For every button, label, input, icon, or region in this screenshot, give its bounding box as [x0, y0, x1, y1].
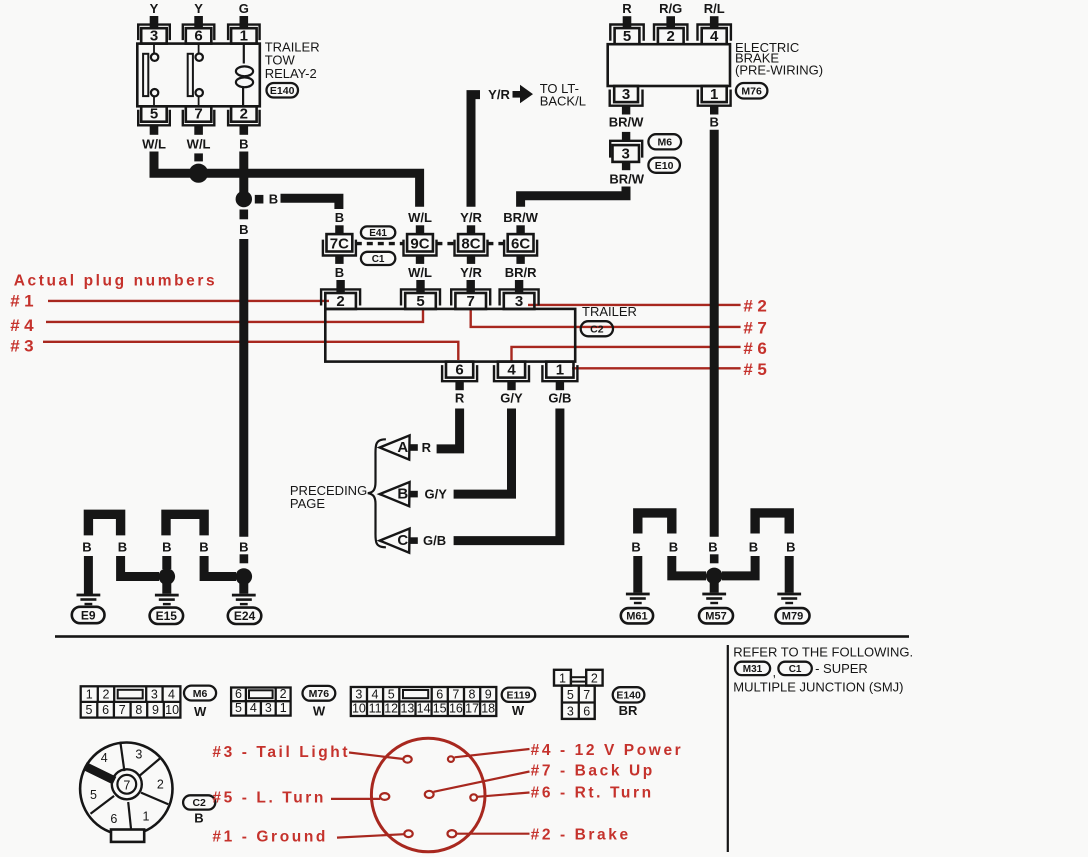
label ELECTRIC BRAKE (PRE-WIRING) — [735, 40, 823, 78]
connector ref M6 (view) — [184, 686, 216, 701]
svg-text:#4: #4 — [10, 316, 38, 335]
svg-text:M61: M61 — [626, 611, 647, 623]
svg-text:17: 17 — [465, 702, 479, 716]
connector ref M57 — [699, 608, 733, 623]
connector ref E9 — [72, 607, 105, 623]
arrow to LT-BACK/L — [513, 85, 534, 103]
relay pin 5 — [138, 106, 170, 126]
label W (E119) — [512, 703, 525, 718]
label TRAILER TOW RELAY-2 — [265, 40, 320, 82]
wire Y/R to SMJ 8C — [471, 95, 480, 207]
red line to pin #6 — [477, 793, 529, 797]
red plug circle — [371, 738, 485, 852]
svg-text:#6 - Rt. Turn: #6 - Rt. Turn — [531, 785, 654, 802]
red plug pin #7 back up — [425, 791, 434, 798]
label #7 - Back Up — [531, 763, 655, 780]
inline connector 3 (M6/E10) — [610, 141, 642, 170]
wire G/Y to arrow B — [454, 409, 512, 495]
svg-text:E119: E119 — [507, 690, 531, 702]
svg-text:3: 3 — [135, 748, 142, 762]
junction dot M57 — [706, 568, 723, 585]
svg-text:R/G: R/G — [659, 1, 682, 16]
svg-text:Y: Y — [194, 1, 203, 16]
svg-text:R: R — [422, 440, 432, 455]
svg-text:4: 4 — [710, 28, 719, 45]
trailer pin 6 — [442, 361, 477, 381]
svg-text:#6: #6 — [743, 339, 771, 358]
connector view E140 — [554, 670, 603, 719]
label Actual plug numbers — [14, 273, 218, 290]
svg-text:Y/R: Y/R — [488, 87, 510, 102]
svg-text:E15: E15 — [156, 609, 178, 623]
svg-text:3: 3 — [567, 705, 574, 719]
svg-text:8: 8 — [135, 703, 142, 717]
label TO LT-BACK/L — [540, 81, 586, 108]
svg-text:7: 7 — [119, 703, 126, 717]
svg-text:2: 2 — [280, 687, 287, 701]
red line to pin #1 — [337, 834, 404, 837]
preceding-page arrow A — [380, 435, 432, 459]
label W (M76) — [313, 704, 326, 719]
label #2 — [743, 297, 771, 316]
svg-text:#2 - Brake: #2 - Brake — [531, 827, 631, 844]
wire G to relay pin 1 — [239, 1, 249, 29]
connector ref M79 — [776, 608, 810, 623]
svg-text:B: B — [239, 137, 248, 152]
svg-text:#5 - L. Turn: #5 - L. Turn — [212, 790, 326, 807]
wire stub above junction M57 — [710, 554, 719, 563]
connector ref M31 — [735, 662, 770, 675]
svg-text:B: B — [749, 540, 758, 555]
label #1 — [10, 292, 38, 311]
label B (E15 leg) — [162, 540, 171, 555]
svg-text:18: 18 — [481, 702, 495, 716]
trailer pin 2 — [321, 289, 360, 309]
label B (E24 leg) — [239, 540, 248, 555]
label B (pie C2) — [194, 811, 203, 826]
red line to pin #4 — [455, 749, 530, 757]
wire stub to trailer pin 3 — [515, 280, 523, 293]
svg-text:6: 6 — [194, 27, 202, 44]
label B (M79 leg) — [786, 540, 795, 555]
svg-text:E9: E9 — [81, 608, 96, 622]
svg-text:6: 6 — [583, 705, 590, 719]
connector ref C1 (note) — [778, 662, 811, 675]
svg-text:3: 3 — [622, 86, 630, 103]
svg-text:RELAY-2: RELAY-2 — [265, 66, 317, 81]
svg-text:B: B — [194, 811, 203, 826]
svg-text:3: 3 — [515, 293, 523, 310]
wire stub + label W/L pin 5 — [142, 125, 166, 151]
svg-text:15: 15 — [433, 702, 447, 716]
junction dot B — [236, 191, 252, 207]
relay pin 3 — [138, 25, 170, 45]
connector view M6 — [81, 686, 181, 717]
note REFER TO THE FOLLOWING — [733, 645, 913, 660]
svg-text:3: 3 — [355, 687, 362, 701]
trailer pin 1 — [542, 361, 577, 381]
wire below junction M57 — [710, 582, 719, 593]
red plug pin #2 brake — [448, 830, 457, 837]
svg-text:6C: 6C — [511, 236, 530, 253]
svg-text:BR/W: BR/W — [609, 115, 644, 130]
wire stub below trailer pin 6 — [455, 381, 463, 390]
svg-text:5: 5 — [235, 701, 242, 715]
red plug pin #6 Rt turn — [470, 794, 477, 800]
wire B link M61 (upper U) — [638, 513, 672, 534]
svg-text:3: 3 — [150, 27, 158, 44]
svg-text:BACK/L: BACK/L — [540, 93, 586, 108]
brake pin 1 — [698, 86, 731, 106]
svg-text:1: 1 — [143, 810, 150, 824]
svg-text:(PRE-WIRING): (PRE-WIRING) — [735, 63, 823, 78]
svg-text:W/L: W/L — [408, 265, 432, 280]
wire B to ground M79 — [785, 556, 794, 593]
connector ref M76 — [736, 83, 768, 99]
svg-text:M57: M57 — [705, 611, 726, 623]
svg-text:14: 14 — [417, 702, 431, 716]
label Y/R (arrow) — [488, 87, 510, 102]
svg-text:B: B — [199, 540, 208, 555]
svg-text:#3: #3 — [10, 337, 38, 356]
connector view E119 — [351, 687, 497, 716]
wire R/L to brake pin 4 — [704, 1, 725, 28]
svg-text:Y/R: Y/R — [460, 210, 482, 225]
svg-text:B: B — [786, 540, 795, 555]
wire stub below trailer pin 1 — [556, 381, 564, 390]
relay coil — [236, 44, 253, 107]
svg-text:1: 1 — [556, 361, 564, 378]
svg-text:2: 2 — [157, 777, 164, 791]
wire R/G to brake pin 2 — [659, 1, 682, 28]
wire B down to junction E15 — [121, 556, 159, 577]
svg-text:B: B — [335, 210, 344, 225]
wire G/B to arrow C — [454, 409, 560, 541]
svg-text:W/L: W/L — [187, 137, 211, 152]
SMJ connector 9C — [404, 210, 437, 280]
wire R to brake pin 5 — [622, 1, 632, 28]
svg-text:3: 3 — [265, 701, 272, 715]
svg-text:4: 4 — [372, 687, 379, 701]
svg-text:7: 7 — [467, 293, 475, 310]
red line #1 to trailer pin 2 — [48, 300, 329, 302]
label B (E9 leg) — [82, 540, 91, 555]
svg-text:Y/R: Y/R — [460, 265, 482, 280]
connector ref E15 — [150, 608, 184, 624]
trailer unit body — [325, 309, 575, 362]
wire stub to trailer pin 5 — [416, 280, 424, 293]
svg-text:E24: E24 — [234, 609, 256, 623]
label #5 — [743, 360, 771, 379]
svg-text:3: 3 — [622, 146, 630, 163]
svg-text:2: 2 — [591, 671, 598, 685]
svg-text:9: 9 — [152, 703, 159, 717]
svg-text:B: B — [239, 222, 248, 237]
connector ref C2 (pie) — [183, 795, 215, 809]
svg-text:4: 4 — [101, 751, 108, 765]
connector ref E119 (view) — [502, 688, 536, 702]
SMJ connector 6C — [503, 210, 538, 280]
red line #5 from trailer pin 1 — [572, 367, 741, 369]
svg-text:A: A — [397, 439, 408, 456]
svg-text:PAGE: PAGE — [290, 496, 325, 511]
label TRAILER — [582, 304, 637, 319]
ground symbol E15 — [155, 594, 179, 606]
label #4 - 12 V Power — [531, 742, 684, 759]
svg-text:6: 6 — [102, 703, 109, 717]
svg-text:#2: #2 — [743, 297, 771, 316]
label B right of junction — [269, 192, 278, 207]
svg-text:G/Y: G/Y — [500, 391, 523, 406]
wire B to SMJ 7C — [281, 198, 339, 209]
relay pin 1 — [228, 25, 260, 45]
brake pin 3 — [610, 86, 643, 106]
wire B down to junction M57 (right) — [722, 556, 755, 576]
svg-text:#7: #7 — [743, 319, 771, 338]
svg-text:5: 5 — [623, 28, 631, 45]
brake pin 2 — [654, 25, 687, 46]
label BR (E140) — [619, 703, 638, 718]
svg-text:G/B: G/B — [548, 391, 571, 406]
svg-text:BR/W: BR/W — [609, 171, 644, 186]
relay pin 7 — [183, 106, 215, 126]
svg-text:2: 2 — [667, 28, 675, 45]
connector ref E140 (view) — [613, 687, 645, 702]
ground symbol E24 — [232, 594, 256, 606]
label PRECEDING PAGE — [290, 483, 367, 511]
svg-text:#1 - Ground: #1 - Ground — [212, 829, 328, 846]
red plug pin #4 12V power — [448, 756, 454, 762]
junction dot E24 — [236, 568, 253, 585]
wire stub W/L pin 7 to junction — [194, 153, 203, 161]
svg-text:W/L: W/L — [142, 137, 166, 152]
svg-text:C2: C2 — [590, 324, 604, 336]
red line #3 to trailer pin 6 — [43, 342, 458, 360]
wire B link E15-E24 (upper U) — [166, 514, 204, 535]
wire stub below junction B — [240, 210, 249, 220]
SMJ dashed links — [356, 242, 504, 245]
label #6 — [743, 339, 771, 358]
label #6 - Rt. Turn — [531, 785, 654, 802]
trailer pin 3 — [500, 289, 539, 309]
label #7 — [743, 319, 771, 338]
connector ref M61 — [621, 608, 653, 623]
label #3 - Tail Light — [212, 744, 350, 761]
svg-text:#4 - 12 V Power: #4 - 12 V Power — [531, 742, 684, 759]
ground symbol M61 — [626, 593, 650, 605]
note divider line — [727, 645, 729, 852]
svg-text:R/L: R/L — [704, 1, 725, 16]
svg-text:4: 4 — [250, 701, 257, 715]
label #4 — [10, 316, 38, 335]
connector ref C1 — [361, 252, 395, 265]
svg-text:C1: C1 — [789, 664, 802, 675]
svg-text:M31: M31 — [743, 664, 763, 675]
brake pin 5 — [610, 25, 643, 46]
wire stub + label BR/W brake pin 3 — [609, 106, 644, 130]
label #5 - L. Turn — [212, 790, 326, 807]
svg-text:#7 - Back Up: #7 - Back Up — [531, 763, 655, 780]
svg-text:4: 4 — [507, 361, 516, 378]
wire stub above junction E24 — [240, 554, 249, 563]
red line #4 to trailer pin 5 — [46, 308, 423, 322]
red line to pin #2 — [456, 833, 529, 835]
svg-text:7: 7 — [123, 778, 130, 792]
svg-text:M6: M6 — [193, 688, 208, 700]
wire B down to junction M57 (left) — [672, 556, 706, 576]
svg-text:E140: E140 — [616, 690, 641, 702]
wire stub below trailer pin 4 — [507, 381, 515, 390]
wire stub + label B brake pin 1 — [710, 106, 719, 130]
relay U1 TRAILER TOW RELAY-2 body — [137, 44, 259, 107]
red line #6 to trailer pin 4 — [512, 347, 741, 361]
label R below trailer pin 6 — [455, 391, 465, 406]
svg-text:6: 6 — [235, 687, 242, 701]
connector ref E10 — [648, 158, 680, 173]
svg-text:B: B — [397, 486, 408, 503]
svg-text:7: 7 — [194, 106, 202, 123]
red plug pin #3 tail light — [403, 756, 411, 763]
svg-text:B: B — [335, 265, 344, 280]
junction dot W/L — [189, 164, 208, 183]
svg-text:8C: 8C — [461, 236, 480, 253]
svg-text:MULTIPLE JUNCTION (SMJ): MULTIPLE JUNCTION (SMJ) — [733, 680, 903, 695]
svg-text:C2: C2 — [192, 797, 206, 809]
red plug pin #1 ground — [404, 830, 412, 837]
label B below junction — [239, 222, 248, 237]
connector ref E24 — [228, 608, 261, 624]
label #3 — [10, 337, 38, 356]
svg-text:16: 16 — [449, 702, 463, 716]
svg-text:#3 - Tail Light: #3 - Tail Light — [212, 744, 350, 761]
svg-text:B: B — [710, 115, 719, 130]
svg-text:W: W — [194, 704, 207, 719]
svg-text:M76: M76 — [309, 688, 330, 700]
svg-text:B: B — [82, 540, 91, 555]
label BR/W below connector 3 — [609, 171, 644, 186]
red line to pin #3 — [349, 753, 403, 760]
svg-text:B: B — [631, 540, 640, 555]
svg-text:REFER TO THE FOLLOWING.: REFER TO THE FOLLOWING. — [733, 645, 913, 660]
wire stub + label W/L pin 7 — [187, 125, 211, 151]
svg-text:B: B — [708, 540, 717, 555]
wire stub into connector 3 — [622, 132, 630, 142]
svg-text:1: 1 — [280, 701, 287, 715]
svg-text:10: 10 — [165, 703, 179, 717]
svg-text:10: 10 — [352, 702, 366, 716]
svg-text:B: B — [669, 540, 678, 555]
separator line — [55, 635, 909, 638]
svg-text:BR: BR — [619, 703, 638, 718]
svg-text:TRAILER: TRAILER — [582, 304, 637, 319]
svg-text:12: 12 — [384, 702, 398, 716]
connector ref E140 (relay) — [267, 83, 299, 98]
svg-text:5: 5 — [150, 106, 158, 123]
svg-text:5: 5 — [416, 293, 424, 310]
svg-text:1: 1 — [710, 86, 718, 103]
svg-text:9C: 9C — [410, 236, 429, 253]
svg-text:2: 2 — [103, 688, 110, 702]
label B (M57 leg) — [708, 540, 717, 555]
svg-text:7: 7 — [452, 687, 459, 701]
relay pin 2 — [228, 106, 260, 126]
red plug pin #5 L turn — [380, 793, 389, 800]
svg-text:M6: M6 — [658, 137, 673, 149]
connector ref E41 — [361, 226, 395, 239]
trailer pin 5 — [401, 289, 440, 309]
connector ref M6 — [648, 134, 681, 149]
svg-text:W/L: W/L — [408, 210, 432, 225]
svg-text:1: 1 — [240, 27, 248, 44]
label B (M61 leg) — [631, 540, 640, 555]
wire stub right of junction B — [255, 195, 264, 204]
SMJ connector 8C — [455, 210, 488, 280]
svg-text:6: 6 — [436, 687, 443, 701]
red line #2 from trailer pin 3 — [528, 304, 741, 306]
wire stub + label B pin 2 — [239, 125, 248, 151]
trailer pin 7 — [451, 289, 490, 309]
svg-text:,: , — [773, 665, 777, 680]
wire B down to junction E24 — [204, 556, 236, 577]
svg-text:M76: M76 — [741, 86, 762, 98]
red line #7 from trailer pin 7 — [471, 310, 741, 327]
label #2 - Brake — [531, 827, 631, 844]
ground symbol M79 — [777, 593, 801, 605]
svg-text:2: 2 — [240, 106, 248, 123]
svg-text:W: W — [313, 704, 326, 719]
svg-text:B: B — [239, 540, 248, 555]
svg-text:E140: E140 — [270, 85, 295, 97]
svg-text:11: 11 — [369, 702, 382, 716]
svg-text:G/B: G/B — [423, 533, 446, 548]
wire B to ground E9 — [84, 556, 93, 594]
electric brake unit body — [608, 44, 730, 86]
svg-text:9: 9 — [485, 687, 492, 701]
svg-text:R: R — [622, 1, 632, 16]
label B (E15-E24 leg) — [199, 540, 208, 555]
svg-text:G/Y: G/Y — [424, 487, 447, 502]
wire B from relay pin 2 — [239, 152, 248, 200]
svg-text:1: 1 — [86, 688, 93, 702]
svg-text:R: R — [455, 391, 465, 406]
trailer pin 4 — [494, 361, 529, 381]
red line to pin #5 — [331, 798, 380, 800]
wire B to ground M61 — [633, 556, 642, 593]
svg-text:Y: Y — [150, 1, 159, 16]
wire B down to ground E24 — [239, 239, 248, 537]
junction dot E15 — [159, 568, 176, 585]
svg-text:2: 2 — [336, 293, 344, 310]
wire R to arrow A — [437, 409, 460, 449]
pie connector face C2 — [80, 742, 172, 842]
relay pin 6 — [183, 25, 215, 45]
label B (M57-M79 leg) — [749, 540, 758, 555]
brake pin 4 — [698, 25, 731, 46]
preceding-page arrow C — [380, 529, 446, 553]
svg-text:7C: 7C — [330, 236, 349, 253]
wire B link E9-E15 (upper U) — [88, 514, 120, 535]
svg-text:C1: C1 — [372, 254, 385, 265]
svg-text:5: 5 — [90, 788, 97, 802]
SMJ connector 7C — [323, 210, 356, 280]
connector ref C2 (trailer) — [581, 321, 613, 336]
svg-text:5: 5 — [86, 703, 93, 717]
red line to pin #7 — [434, 772, 530, 792]
svg-text:B: B — [162, 540, 171, 555]
svg-text:#5: #5 — [743, 360, 771, 379]
wire B link M79 (upper U) — [755, 513, 789, 534]
svg-text:B: B — [269, 192, 278, 207]
